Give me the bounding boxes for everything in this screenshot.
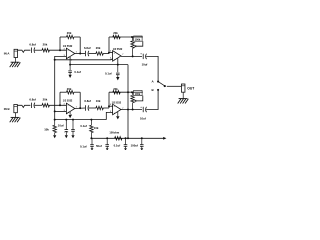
wire switch pole to OUT jack — [167, 85, 182, 87]
U3 power pin wire and ground arrow — [69, 112, 72, 118]
svg-text:IN A: IN A — [4, 51, 11, 55]
switch contact B label — [152, 88, 155, 92]
U2 inverting node riser — [108, 37, 110, 54]
feedback resistor R2 20k label — [67, 31, 72, 35]
capacitor C14 — [124, 138, 128, 148]
wire C1 to R1 — [35, 49, 42, 51]
node N2 junction — [108, 52, 110, 54]
node B2 trimmer junction — [132, 109, 134, 111]
crossover vertical from rail A2 to bottom rail — [127, 65, 129, 139]
bottom rail junction x128 — [127, 137, 129, 139]
op-amp U3 label 1/2 5532 — [63, 100, 73, 103]
feedback R4 top wire — [109, 36, 132, 38]
resistor R1 — [42, 49, 49, 52]
U4 output wire — [121, 109, 142, 111]
ground arrow under C5 — [69, 75, 72, 78]
jack J1 (IN A) — [14, 49, 17, 57]
node N4 junction — [108, 105, 110, 107]
wire jack J1 to C1 with notch — [18, 50, 31, 52]
U3 non-inverting input wire — [55, 110, 67, 112]
resistor R6 — [67, 91, 74, 94]
U4 inverting node riser — [108, 92, 110, 108]
svg-text:6: 6 — [110, 51, 111, 53]
wire C9 to switch B — [146, 90, 158, 110]
U3 output wire — [75, 107, 85, 110]
capacitor C9 10uf plus sign — [140, 105, 142, 109]
U1 power pin wire to rail — [69, 57, 71, 65]
wire C4 to switch A — [146, 56, 158, 81]
trimmer VR2 wiper wrap wire — [132, 92, 143, 102]
capacitor C7 6.8uf label — [29, 98, 36, 102]
capacitor C13 50uf label — [96, 144, 102, 148]
capacitor C11 0.1uf — [71, 120, 75, 136]
capacitor C4 10uf — [143, 54, 146, 59]
crossover junction at B feedback — [127, 91, 129, 93]
capacitor C12 — [90, 138, 94, 148]
svg-text:20k: 20k — [113, 31, 118, 35]
resistor R4 — [113, 35, 120, 38]
capacitor C4 label — [142, 63, 148, 67]
svg-text:10k: 10k — [96, 99, 101, 103]
capacitor C15 — [140, 138, 144, 148]
svg-text:6.8uf: 6.8uf — [29, 98, 36, 102]
resistor R11 — [115, 137, 122, 140]
feedback resistor R4 20k label — [113, 31, 118, 35]
svg-text:100ohm: 100ohm — [109, 130, 119, 134]
svg-text:0.1uf: 0.1uf — [80, 144, 87, 148]
svg-text:6.8uf: 6.8uf — [84, 46, 91, 50]
capacitor C7 — [32, 103, 35, 108]
node A1 output junction — [79, 53, 81, 55]
svg-text:6.8uf: 6.8uf — [84, 99, 91, 103]
switch arm — [159, 82, 166, 87]
resistor R11 100ohm label — [109, 130, 119, 134]
resistor R3 — [96, 52, 103, 55]
ground arrow under C6 — [116, 77, 119, 80]
ground arrow under C10 — [65, 135, 68, 138]
svg-text:6: 6 — [110, 104, 111, 106]
rail B junction x54.7 — [54, 119, 56, 121]
capacitor C1 — [32, 48, 35, 53]
U2 output wire — [121, 55, 142, 57]
capacitor C15 100uf label — [131, 144, 138, 148]
svg-text:20k: 20k — [67, 31, 72, 35]
capacitor C2 — [86, 51, 89, 56]
label OUT — [187, 87, 194, 91]
resistor R5 — [42, 104, 49, 107]
ground arrow under C12 — [91, 148, 94, 150]
U1 non-inverting input wire — [55, 56, 67, 59]
wire R5 to U3 inverting input — [49, 104, 66, 106]
U4 non-inverting input wire — [106, 112, 112, 119]
capacitor C6 0.1uf — [116, 65, 120, 77]
resistor R1 20k label — [43, 42, 48, 46]
ground arrow under C11 — [71, 135, 74, 138]
capacitor C9 label — [140, 116, 146, 120]
U2 inverting input stub — [109, 52, 113, 54]
svg-text:IN B: IN B — [4, 107, 10, 111]
rail A2 junction at x70.1 — [69, 64, 71, 66]
resistor R10 10k label — [94, 126, 99, 130]
label IN B — [4, 107, 10, 111]
trimmer VR2 100k box — [134, 90, 143, 95]
op-amp U2 — [113, 51, 121, 62]
wire R1 to U1 inverting input — [49, 49, 66, 51]
capacitor C5 0.1uf — [68, 65, 72, 75]
svg-text:50uf: 50uf — [96, 144, 102, 148]
svg-text:5: 5 — [110, 57, 111, 59]
svg-text:10uf: 10uf — [140, 116, 146, 120]
rail B junction x66.3 — [65, 119, 67, 121]
node A2 trimmer junction — [132, 55, 134, 57]
feedback loop R2 wires — [60, 37, 80, 54]
rail A2 junction at x117.8 — [117, 64, 119, 66]
feedback R8 top wire — [109, 91, 132, 93]
svg-text:1/2 5532: 1/2 5532 — [113, 48, 123, 51]
rail B junction x73 — [72, 119, 74, 121]
svg-text:100uf: 100uf — [131, 144, 138, 148]
capacitor C14 0.1uf label — [114, 144, 121, 148]
node B1 output junction — [79, 107, 81, 109]
resistor R9 10k label — [44, 127, 49, 131]
trimmer VR1 element — [131, 37, 134, 56]
svg-text:1/2 5532: 1/2 5532 — [63, 100, 73, 103]
feedback resistor R6 20k label — [67, 87, 72, 91]
node F2 junction — [131, 36, 133, 38]
capacitor C1 6.8uf label — [29, 42, 36, 46]
resistor R9 — [53, 120, 56, 136]
svg-text:10k: 10k — [94, 126, 99, 130]
wire jack J2 to C7 with notch — [18, 105, 31, 107]
bottom rail junction x124.6 — [125, 137, 127, 139]
resistor R3 20k label — [96, 46, 101, 50]
svg-text:2: 2 — [64, 48, 65, 50]
capacitor C13 — [105, 138, 109, 148]
op-amp U2 label 1/2 5532 — [113, 48, 123, 51]
capacitor C5 label — [74, 70, 81, 74]
op-amp U4 label 1/2 5532 — [112, 101, 122, 104]
trimmer VR1 100k box — [134, 36, 143, 41]
U4 power pin wire and ground arrow — [116, 112, 119, 120]
capacitor C12 0.1uf label — [80, 144, 87, 148]
U4 inverting input stub — [109, 105, 113, 107]
svg-text:20k: 20k — [43, 98, 48, 102]
svg-text:10uf: 10uf — [58, 124, 64, 128]
trimmer VR2 element — [131, 92, 134, 109]
capacitor C10 10uf label — [58, 124, 64, 128]
svg-text:2: 2 — [64, 103, 65, 105]
rail A1 junction at x54.7 — [54, 59, 56, 61]
jack J3 (OUT) — [181, 84, 185, 92]
svg-text:1/2 5532: 1/2 5532 — [112, 101, 122, 104]
ground arrow under R9 — [53, 135, 56, 138]
U2 non-inverting input wire — [110, 59, 112, 60]
inter-channel bias link — [54, 60, 56, 120]
svg-text:0.1uf: 0.1uf — [80, 124, 87, 128]
svg-text:20k: 20k — [43, 42, 48, 46]
wire C2 to R3 — [89, 53, 96, 55]
wire R7 to U4 node — [103, 107, 109, 109]
wire C8 to R7 — [89, 107, 96, 109]
svg-text:10k: 10k — [44, 127, 49, 131]
node N3 junction — [59, 104, 61, 106]
feedback loop R6 wires — [60, 92, 80, 108]
bottom rail junction x140.8 — [141, 137, 143, 139]
bottom rail junction x90.8 — [90, 137, 92, 139]
op-amp U4 — [113, 104, 121, 115]
ground arrow under C15 — [140, 148, 143, 150]
U3 pin numbers — [64, 103, 77, 116]
op-amp U3 — [66, 103, 74, 114]
resistor R7 10k label — [96, 99, 101, 103]
resistor R2 — [67, 35, 74, 38]
resistor R5 20k label — [43, 98, 48, 102]
rail B junction x90.8 — [90, 119, 92, 121]
bottom rail — [91, 137, 163, 139]
bottom rail junction x103 — [106, 137, 108, 139]
capacitor C8 — [86, 105, 89, 110]
U1 pin numbers — [64, 48, 77, 61]
ground under OUT jack — [178, 92, 189, 103]
svg-text:0.1uf: 0.1uf — [105, 72, 112, 76]
capacitor C9 10uf — [143, 107, 146, 112]
U1 output wire — [75, 53, 85, 55]
feedback resistor R8 20k label — [113, 87, 118, 91]
label IN A — [4, 51, 11, 55]
U3 junction on bias link — [54, 110, 56, 112]
svg-text:0.1uf: 0.1uf — [114, 144, 121, 148]
resistor R7 — [96, 106, 103, 109]
node F4 junction — [131, 91, 133, 93]
wire R3 to U2 node — [103, 53, 109, 55]
U2 power pin wire to rail — [117, 58, 119, 64]
capacitor C11 label — [80, 124, 87, 128]
svg-text:10uf: 10uf — [142, 63, 148, 67]
ground arrow under C14 — [124, 148, 127, 150]
svg-text:20k: 20k — [96, 46, 101, 50]
resistor R8 — [113, 91, 120, 94]
U4 pin numbers — [110, 104, 124, 113]
capacitor C4 10uf plus sign — [140, 52, 142, 56]
svg-text:100k: 100k — [135, 37, 141, 41]
switch contact A — [157, 81, 159, 83]
bottom rail arrow end — [163, 137, 166, 140]
capacitor C10 — [65, 120, 69, 136]
capacitor C2 6.8uf label — [84, 46, 91, 50]
bias rail A1 — [55, 59, 113, 60]
svg-text:1/2 5532: 1/2 5532 — [63, 45, 73, 48]
trimmer VR1 wiper wrap wire — [132, 37, 143, 47]
svg-text:6.8uf: 6.8uf — [29, 42, 36, 46]
crossover junction at B output — [127, 109, 129, 111]
svg-text:0.1uf: 0.1uf — [74, 70, 81, 74]
resistor R10 — [90, 120, 93, 139]
svg-text:7: 7 — [122, 54, 123, 56]
switch contact B — [157, 89, 159, 91]
ground under jack J1 — [10, 58, 21, 68]
op-amp U1 — [66, 48, 74, 59]
op-amp U1 label 1/2 5532 — [63, 45, 73, 48]
ground under jack J2 — [10, 113, 21, 123]
jack J2 (IN B) — [14, 105, 18, 113]
svg-text:OUT: OUT — [187, 87, 194, 91]
bias rail B — [55, 119, 107, 121]
capacitor C8 6.8uf label — [84, 99, 91, 103]
decoupling rail A2 — [70, 64, 128, 66]
switch contact A label — [152, 79, 155, 83]
U2 pin numbers — [110, 51, 124, 60]
capacitor C6 0.1uf label — [105, 72, 112, 76]
wire C7 to R5 — [35, 104, 42, 106]
node N1 junction — [59, 49, 61, 51]
ground arrow under C13 — [106, 148, 109, 150]
